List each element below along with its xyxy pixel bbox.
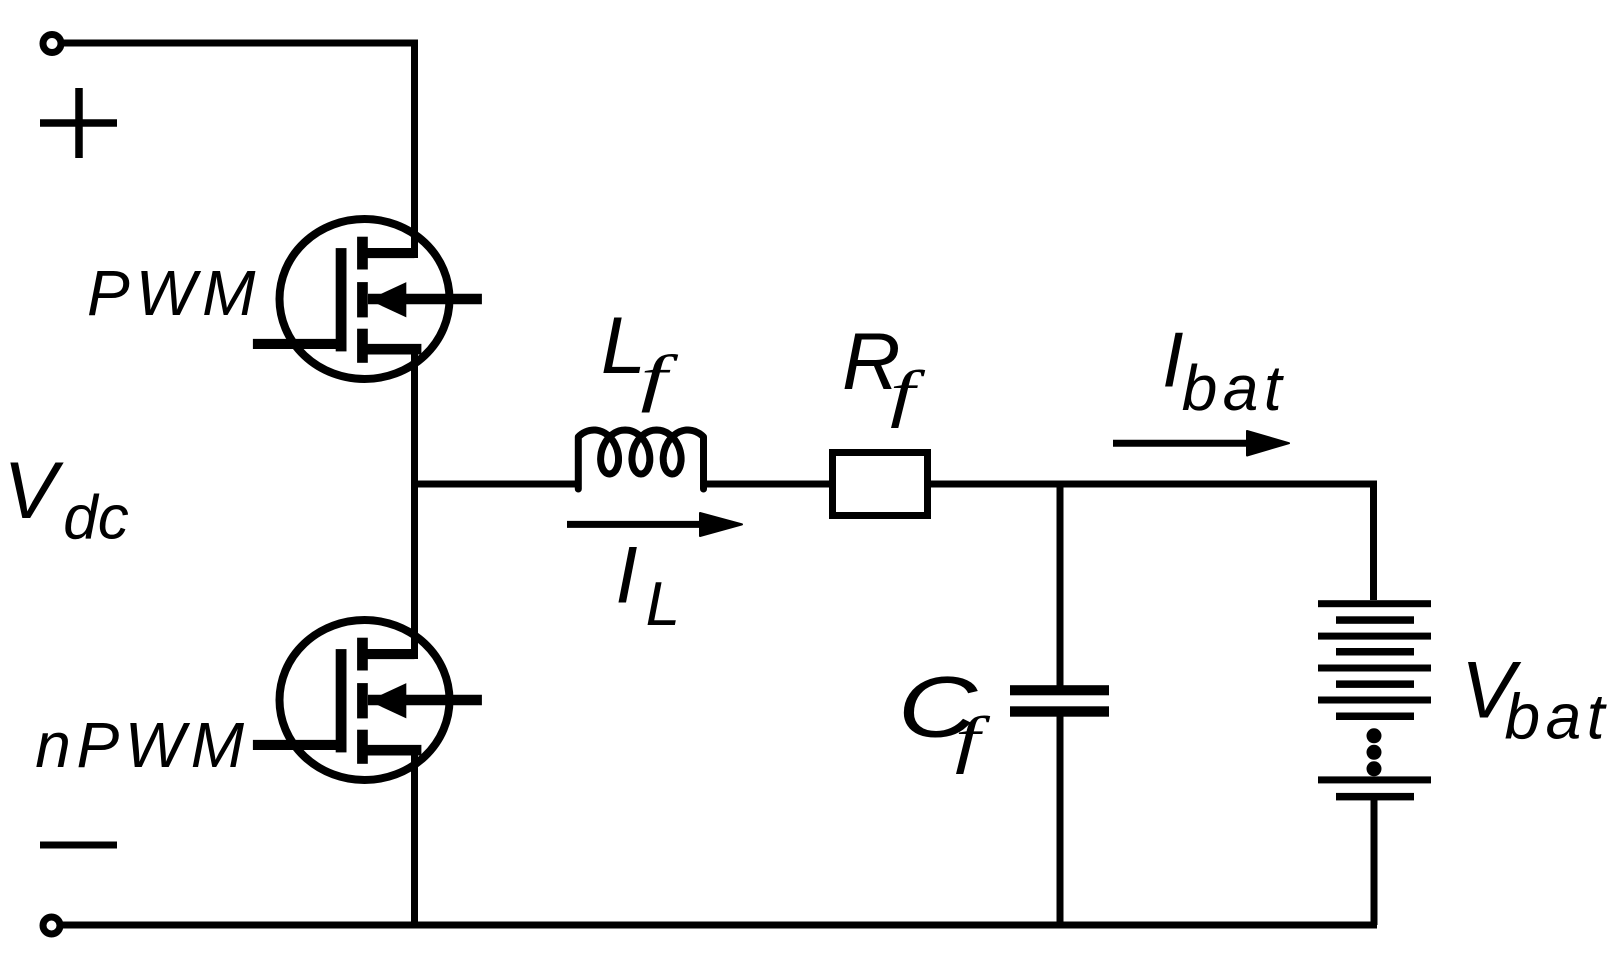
Vbat ellipsis dot 3 [1367,761,1382,776]
Vbat cell 4 positive plate [1318,697,1431,704]
Vbat ellipsis dot 2 [1367,745,1382,760]
Vbat cell 2 positive plate [1318,633,1431,640]
wire bottom rail from - terminal to battery bottom corner [62,922,1377,929]
wire capacitor Cf bottom plate to bottom rail [1057,716,1064,925]
wire top rail from + terminal to drain of Q1 [62,43,415,258]
Vbat cell 3 negative plate [1336,680,1414,688]
transistor Q1 PWM MOSFET [253,219,482,379]
Vbat cell 1 positive plate [1318,600,1431,607]
wire node B down to capacitor Cf top plate [1057,481,1064,686]
Vbat cell n positive plate [1318,776,1431,783]
minus sign of Vdc [40,842,117,849]
Q1 channel segment source side [357,329,368,363]
Q2 body circle [280,620,450,780]
label Cf [898,659,991,775]
Vbat cell 1 negative plate [1336,616,1414,624]
terminal Vdc positive [43,35,61,53]
label Ibat [1162,316,1287,424]
Q1 gate lead [253,339,341,349]
Q1 body lead stub [368,294,482,305]
Vbat cell 4 negative plate [1336,713,1414,721]
Q2 channel segment body [357,683,368,718]
Vbat cell n negative plate [1336,793,1414,801]
plus sign of Vdc [40,88,117,158]
arrow IL inductor current direction [567,513,742,536]
Q1 channel segment drain side [357,237,368,270]
svg-text:L: L [646,570,680,639]
Q2 gate bar [336,649,347,752]
svg-text:L: L [601,301,646,391]
Vbat ellipsis dot 1 [1367,728,1382,743]
Q2 body lead stub [368,695,482,706]
Q2 source connection [362,745,421,756]
label Vdc [3,446,128,552]
Q1 body circle [280,219,450,379]
svg-text:f: f [890,358,926,429]
Q1 channel segment body [357,282,368,317]
terminal Vdc negative [43,917,60,934]
svg-text:f: f [641,342,680,413]
Q1 source connection [362,344,421,355]
Q2 channel segment source side [357,730,368,764]
inductor Lf coil [578,430,703,489]
svg-text:V: V [3,446,64,536]
Q2 drain connection [362,649,415,659]
wire resistor Rf through node B to battery Vbat top corner [931,484,1374,600]
wire inductor Lf right terminal to resistor Rf [703,481,829,488]
Q1 body arrow [369,282,407,317]
Vbat cell 2 negative plate [1336,648,1414,656]
svg-text:f: f [955,704,991,775]
resistor Rf box [833,453,928,516]
wire node A to inductor Lf left terminal [411,481,579,488]
svg-text:bat: bat [1182,352,1287,424]
svg-text:dc: dc [63,484,128,553]
Cf bottom plate [1010,706,1109,716]
Q2 body arrow [369,683,407,718]
svg-text:PWM: PWM [87,257,261,329]
Q1 gate bar [336,248,347,351]
Q2 channel segment drain side [357,638,368,671]
wire Q2 source to bottom rail [411,750,418,925]
wire Q1 source down through node A to Q2 drain [411,349,418,659]
transistor Q2 nPWM MOSFET [253,620,482,780]
label Lf [601,301,679,413]
Q2 gate lead [253,740,341,750]
battery Vbat cell stack [1318,600,1431,800]
capacitor Cf [1010,685,1109,717]
label Rf [842,317,926,429]
Cf top plate [1010,685,1109,695]
label Vbat [1461,645,1610,752]
svg-text:nPWM: nPWM [35,709,249,781]
svg-text:I: I [1162,316,1184,404]
Vbat cell 3 positive plate [1318,665,1431,672]
svg-text:I: I [615,531,638,621]
label IL [615,531,680,639]
Q1 drain connection [362,248,415,258]
arrow Ibat battery current direction [1113,431,1289,456]
wire battery Vbat bottom terminal to bottom rail [1371,797,1378,925]
svg-text:bat: bat [1505,681,1610,753]
